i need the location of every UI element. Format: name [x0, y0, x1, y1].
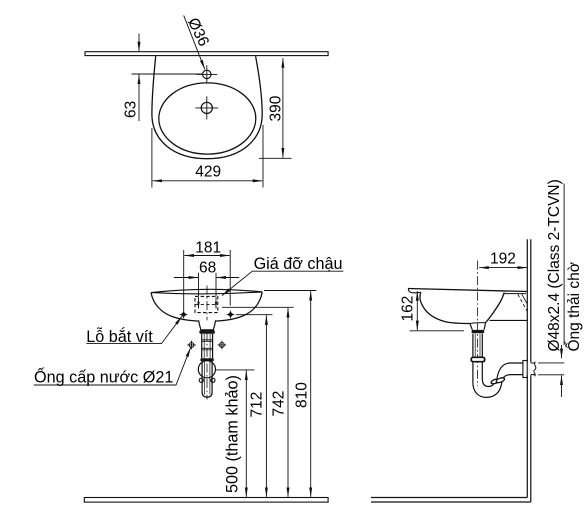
trap circle (front)	[198, 361, 215, 378]
svg-text:162: 162	[400, 296, 417, 322]
181 extension lines	[184, 250, 231, 311]
underline for Ø48 label	[563, 184, 565, 346]
Ø48 upper leader with arrow	[561, 345, 563, 358]
tailpipe (side)	[473, 334, 482, 358]
drain hole crosshair	[195, 96, 218, 119]
712 dimension line	[265, 315, 267, 497]
centerline (front, dash-dot)	[206, 286, 208, 400]
floor line (front view)	[84, 498, 328, 503]
supply hole symbol right	[218, 341, 227, 350]
429 dimension line	[153, 180, 263, 182]
screw hole diamond right	[228, 312, 233, 317]
drain nut 2 (black band)	[200, 358, 213, 361]
faucet hole crosshair	[196, 65, 217, 83]
rim underside near wall (side)	[504, 293, 527, 295]
742 extension line	[222, 306, 294, 308]
basin body underside (front)	[151, 292, 262, 321]
arrow above wall (63 dim upper)	[138, 34, 140, 42]
68 extension lines	[199, 273, 217, 296]
svg-text:Ø36: Ø36	[184, 15, 212, 49]
bracket hook arrows	[198, 297, 200, 309]
basin rim (front)	[151, 289, 262, 292]
svg-text:Lỗ bắt vít: Lỗ bắt vít	[86, 327, 153, 346]
bracket (Giá đỡ chậu) dashed rectangle	[195, 296, 218, 312]
trap elbow to horizontal pipe (side)	[497, 363, 524, 378]
810 extension line	[264, 290, 316, 292]
63 dimension line	[138, 75, 140, 121]
bracket inner dashed line	[195, 304, 218, 306]
68 dimension line outside arrows	[174, 277, 198, 279]
drain nut 1 (black band)	[199, 330, 214, 334]
leader line for Ø36	[184, 15, 205, 69]
trap union nut ellipses (side)	[490, 378, 500, 385]
500 extension line	[216, 369, 255, 371]
svg-text:Ống cấp nước Ø21: Ống cấp nước Ø21	[34, 367, 173, 387]
bracket hidden lines (side)	[518, 294, 527, 311]
svg-text:181: 181	[195, 239, 221, 256]
pipe stub through wall with break (side)	[531, 363, 535, 375]
pipe collar lines	[202, 340, 213, 350]
810 dimension line	[310, 291, 312, 497]
svg-text:712: 712	[249, 392, 266, 418]
svg-text:429: 429	[195, 164, 221, 181]
svg-text:192: 192	[490, 251, 516, 268]
wall (side view)	[527, 239, 531, 502]
svg-text:68: 68	[199, 260, 216, 277]
162 dimension line	[416, 291, 418, 330]
drain funnel (front)	[199, 320, 216, 330]
712 extension line	[236, 314, 273, 316]
181 dimension line	[184, 255, 229, 257]
trap nut ears (front)	[199, 378, 203, 382]
fitting top line (side)	[470, 322, 486, 325]
faucet hole circle	[203, 70, 211, 78]
bowl ellipse (plan)	[159, 83, 256, 154]
192 dimension line	[479, 267, 527, 269]
bowl right rise (side)	[486, 292, 505, 322]
label Lỗ bắt vít leader	[86, 316, 182, 343]
basin front lip lower edge (side)	[408, 289, 421, 293]
svg-text:500 (tham khảo): 500 (tham khảo)	[224, 375, 242, 493]
63 extension line at faucet center	[132, 73, 203, 75]
svg-text:Ống thải chờ: Ống thải chờ	[565, 262, 583, 351]
drain nut (side, black band)	[472, 330, 485, 333]
Ø48 lower arrow	[561, 376, 563, 398]
162 top extension (rim line already) / bottom extension line	[410, 330, 464, 332]
drain pipe (front)	[202, 334, 213, 358]
centerline of drain (side, dash-dot)	[477, 261, 479, 387]
basin outline (plan)	[152, 56, 262, 159]
drain hole circle	[201, 102, 212, 113]
svg-text:Ø48x2.4 (Class 2-TCVN): Ø48x2.4 (Class 2-TCVN)	[546, 179, 563, 351]
svg-text:Giá đỡ chậu: Giá đỡ chậu	[254, 255, 343, 273]
screw hole diamond left (Lỗ bắt vít)	[181, 312, 186, 317]
basin rim top line (side)	[408, 289, 527, 292]
floor line (side view)	[371, 498, 531, 503]
742 dimension line	[287, 308, 289, 497]
390 bottom extension line	[259, 157, 292, 159]
wall socket flange (side)	[523, 361, 527, 378]
500 dimension line	[245, 371, 247, 497]
svg-text:810: 810	[294, 382, 311, 408]
Ø48 extension lines	[538, 363, 564, 375]
lower pipe with round bottom (front)	[202, 361, 212, 397]
drain fitting sides (side)	[470, 323, 486, 330]
svg-text:63: 63	[123, 101, 140, 118]
wall/counter line (plan)	[85, 52, 328, 56]
label Ống cấp nước leader	[34, 348, 191, 385]
label Giá đỡ chậu leader	[222, 271, 343, 295]
tailpipe nut (side)	[471, 357, 485, 361]
svg-text:742: 742	[271, 391, 288, 417]
supply hole symbol left (Ống cấp nước)	[187, 341, 196, 350]
trap J-bend (side)	[473, 362, 502, 398]
basin back bottom line to wall (side)	[490, 319, 528, 321]
429 extension lines	[152, 125, 263, 188]
390 dimension line	[282, 58, 284, 157]
svg-text:390: 390	[268, 95, 285, 121]
bowl curve (side)	[420, 292, 470, 323]
